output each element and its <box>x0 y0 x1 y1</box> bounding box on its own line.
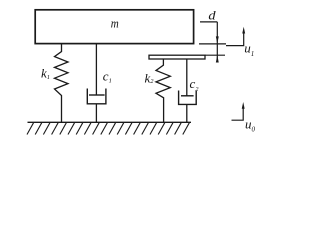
u0 arrowhead <box>242 102 245 109</box>
damper c1 piston rod <box>95 44 97 95</box>
u0 datum line <box>232 108 244 120</box>
damper c2 piston plate <box>181 95 194 97</box>
svg-text:u1: u1 <box>244 41 254 58</box>
spring k1 <box>55 44 69 122</box>
svg-text:c2: c2 <box>190 76 200 93</box>
svg-text:c1: c1 <box>103 68 112 84</box>
svg-text:k2: k2 <box>145 70 155 85</box>
damper c1 cylinder cup <box>87 89 106 104</box>
dimension d down arrowhead <box>216 36 219 43</box>
mass block m <box>35 10 193 44</box>
damper c2 piston rod <box>186 59 188 96</box>
ground line <box>28 121 192 123</box>
damper c1 piston plate <box>89 94 105 96</box>
u1 arrowhead <box>242 27 245 34</box>
svg-text:d: d <box>208 8 216 23</box>
dimension d up arrowhead <box>216 55 219 62</box>
dimension d leader underline <box>200 21 217 23</box>
extension line from mass bottom <box>199 43 226 45</box>
damper c1 lower stem <box>95 104 97 122</box>
u1 datum line <box>226 33 244 46</box>
svg-text:m: m <box>111 16 119 31</box>
damper c2 cylinder cup <box>179 91 197 105</box>
svg-text:k1: k1 <box>41 65 50 81</box>
svg-text:u0: u0 <box>245 117 256 134</box>
dimension d vertical line <box>216 22 218 62</box>
plate under mass <box>149 55 205 59</box>
extension line from plate top <box>205 54 225 56</box>
spring k2 <box>156 59 170 122</box>
damper c2 lower stem <box>186 104 188 122</box>
ground hatching <box>27 123 189 135</box>
